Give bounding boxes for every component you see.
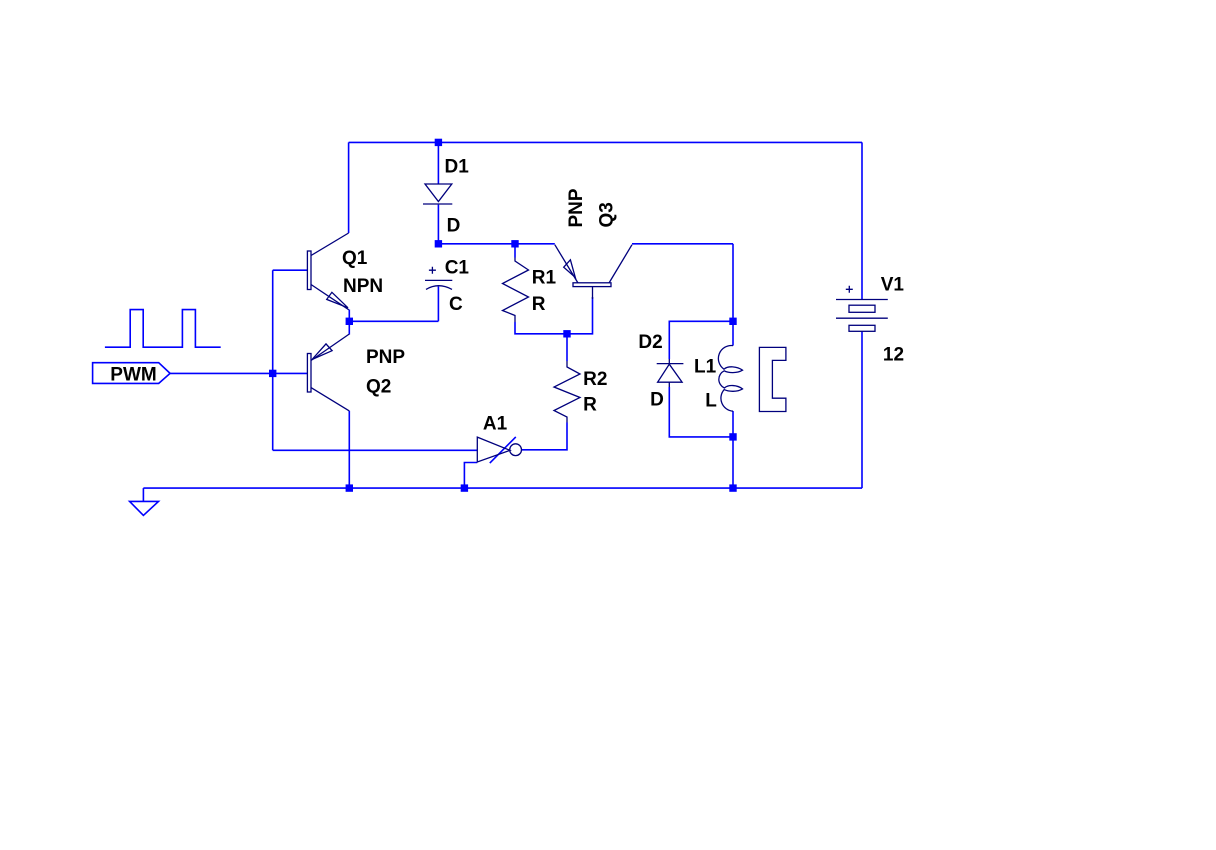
node junction L1/D2 top bbox=[729, 318, 736, 325]
svg-text:Q3: Q3 bbox=[597, 202, 618, 227]
wire ground stem bbox=[142, 488, 144, 501]
wire D1 cathode lead to node D bbox=[437, 205, 439, 244]
svg-text:L1: L1 bbox=[694, 356, 717, 377]
node junction R1 top bbox=[511, 240, 518, 247]
wire Q2 base bbox=[273, 372, 308, 374]
svg-text:R2: R2 bbox=[583, 369, 607, 390]
svg-text:R1: R1 bbox=[532, 267, 557, 288]
inductor core bracket bbox=[759, 347, 786, 411]
svg-text:R: R bbox=[532, 294, 546, 315]
wire V1 bottom lead bbox=[861, 331, 863, 488]
wire left vertical bus bbox=[272, 270, 274, 450]
wire R1 bottom lead bbox=[515, 322, 567, 334]
node junction Q2 collector on ground rail bbox=[346, 484, 353, 491]
inverter A1 bbox=[477, 437, 521, 462]
wire R1 top lead bbox=[514, 244, 516, 258]
A1 slash mark bbox=[490, 437, 516, 463]
wire A1 ground pin bbox=[464, 463, 477, 489]
wire R2 bottom lead to A1 output bbox=[522, 423, 567, 450]
wire top rail bbox=[349, 141, 862, 143]
svg-text:NPN: NPN bbox=[343, 276, 383, 297]
wire Q1 emitter stub bbox=[348, 310, 350, 322]
svg-text:D: D bbox=[447, 216, 461, 237]
battery V1 bbox=[836, 286, 888, 332]
wire L1 top lead bbox=[732, 244, 734, 346]
wire PWM to bus bbox=[170, 372, 273, 374]
wire C1 bottom lead bbox=[437, 287, 439, 322]
wire D2 bottom link bbox=[669, 387, 733, 437]
transistor Q3 bbox=[555, 245, 632, 299]
transistor Q1 bbox=[307, 233, 348, 310]
svg-text:R: R bbox=[583, 395, 597, 416]
wire A1 input bbox=[273, 449, 478, 451]
node junction R1/R2/Q3 base bbox=[563, 330, 570, 337]
wire Q1 collector vertical bbox=[348, 142, 350, 233]
ground symbol bbox=[130, 501, 159, 515]
node junction L1/D2 bottom bbox=[729, 433, 736, 440]
wire D2 top link bbox=[669, 321, 733, 359]
svg-text:PNP: PNP bbox=[366, 347, 405, 368]
node junction top rail / D1 bbox=[435, 139, 442, 146]
svg-text:Q1: Q1 bbox=[342, 248, 368, 269]
node junction A1 ground on ground rail bbox=[461, 484, 468, 491]
pulse waveform symbol bbox=[105, 310, 221, 348]
svg-text:D2: D2 bbox=[638, 332, 662, 353]
svg-text:C1: C1 bbox=[445, 257, 470, 278]
node junction D / C1 bbox=[435, 240, 442, 247]
svg-text:V1: V1 bbox=[881, 274, 905, 295]
svg-text:Q2: Q2 bbox=[366, 377, 391, 398]
node junction PWM / Q2 base bbox=[269, 370, 276, 377]
wire mid rail left (node D to Q3 emitter) bbox=[438, 243, 554, 245]
wire bottom ground rail bbox=[143, 487, 862, 489]
wire Q2 emitter stub bbox=[348, 321, 350, 334]
wire D1 anode lead bbox=[437, 142, 439, 184]
svg-text:PWM: PWM bbox=[110, 365, 156, 386]
resistor R2 bbox=[554, 361, 580, 423]
svg-text:A1: A1 bbox=[483, 414, 508, 435]
wire L1 bottom lead bbox=[732, 411, 734, 488]
diode D1 bbox=[423, 184, 452, 204]
svg-text:12: 12 bbox=[883, 344, 904, 365]
wire emitters node to C1 bottom bbox=[349, 320, 438, 322]
svg-text:D: D bbox=[650, 389, 664, 410]
inductor L1 coil bbox=[718, 345, 742, 411]
transistor Q2 bbox=[307, 334, 349, 411]
wire Q3 base bbox=[567, 297, 593, 334]
svg-text:D1: D1 bbox=[445, 157, 470, 178]
wire mid rail right (Q3 collector to L1 top) bbox=[632, 243, 733, 245]
svg-text:L: L bbox=[705, 390, 717, 411]
svg-text:PNP: PNP bbox=[566, 188, 587, 227]
diode D2 bbox=[657, 359, 684, 387]
svg-text:C: C bbox=[449, 294, 463, 315]
wire Q1 base bbox=[273, 269, 308, 271]
wire Q2 collector down bbox=[348, 411, 350, 488]
wire R2 top lead bbox=[566, 334, 568, 361]
PWM flag outline bbox=[93, 363, 171, 384]
wire V1 top lead bbox=[861, 142, 863, 299]
resistor R1 bbox=[503, 258, 529, 323]
node junction emitters bbox=[346, 318, 353, 325]
capacitor C1 bbox=[425, 267, 452, 290]
node junction L1 leg on ground rail bbox=[729, 484, 736, 491]
